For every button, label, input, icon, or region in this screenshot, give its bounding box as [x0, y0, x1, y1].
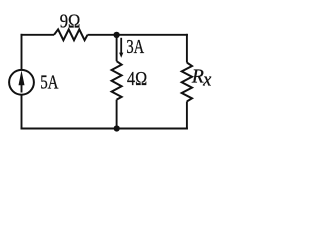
- current source I1 arrow: [19, 70, 25, 92]
- current source I1 circle: [9, 70, 34, 95]
- resistor 9ohm zigzag: [54, 29, 88, 40]
- svg-text:4Ω: 4Ω: [127, 69, 147, 90]
- wire: middle branch upper segment: [116, 35, 118, 61]
- resistor 4ohm zigzag: [112, 61, 122, 99]
- svg-text:9Ω: 9Ω: [60, 11, 81, 32]
- node A junction dot (top): [113, 32, 119, 38]
- svg-text:R: R: [191, 67, 204, 88]
- resistor Rx zigzag: [182, 63, 192, 102]
- branch current 3A arrow: [119, 38, 123, 58]
- wire: top-left horizontal segment: [21, 34, 54, 36]
- wire: right branch lower segment: [186, 101, 188, 129]
- svg-text:x: x: [202, 70, 212, 90]
- node B junction dot (bottom): [114, 125, 120, 131]
- wire: bottom horizontal segment: [21, 128, 188, 130]
- wire: left vertical lower segment: [21, 95, 23, 130]
- svg-text:5A: 5A: [40, 73, 58, 94]
- wire: right branch upper segment: [186, 34, 188, 63]
- wire: left vertical upper segment: [21, 34, 23, 70]
- wire: middle branch lower segment: [116, 100, 118, 129]
- svg-text:3A: 3A: [126, 37, 144, 58]
- wire: top-right horizontal segment: [88, 34, 188, 36]
